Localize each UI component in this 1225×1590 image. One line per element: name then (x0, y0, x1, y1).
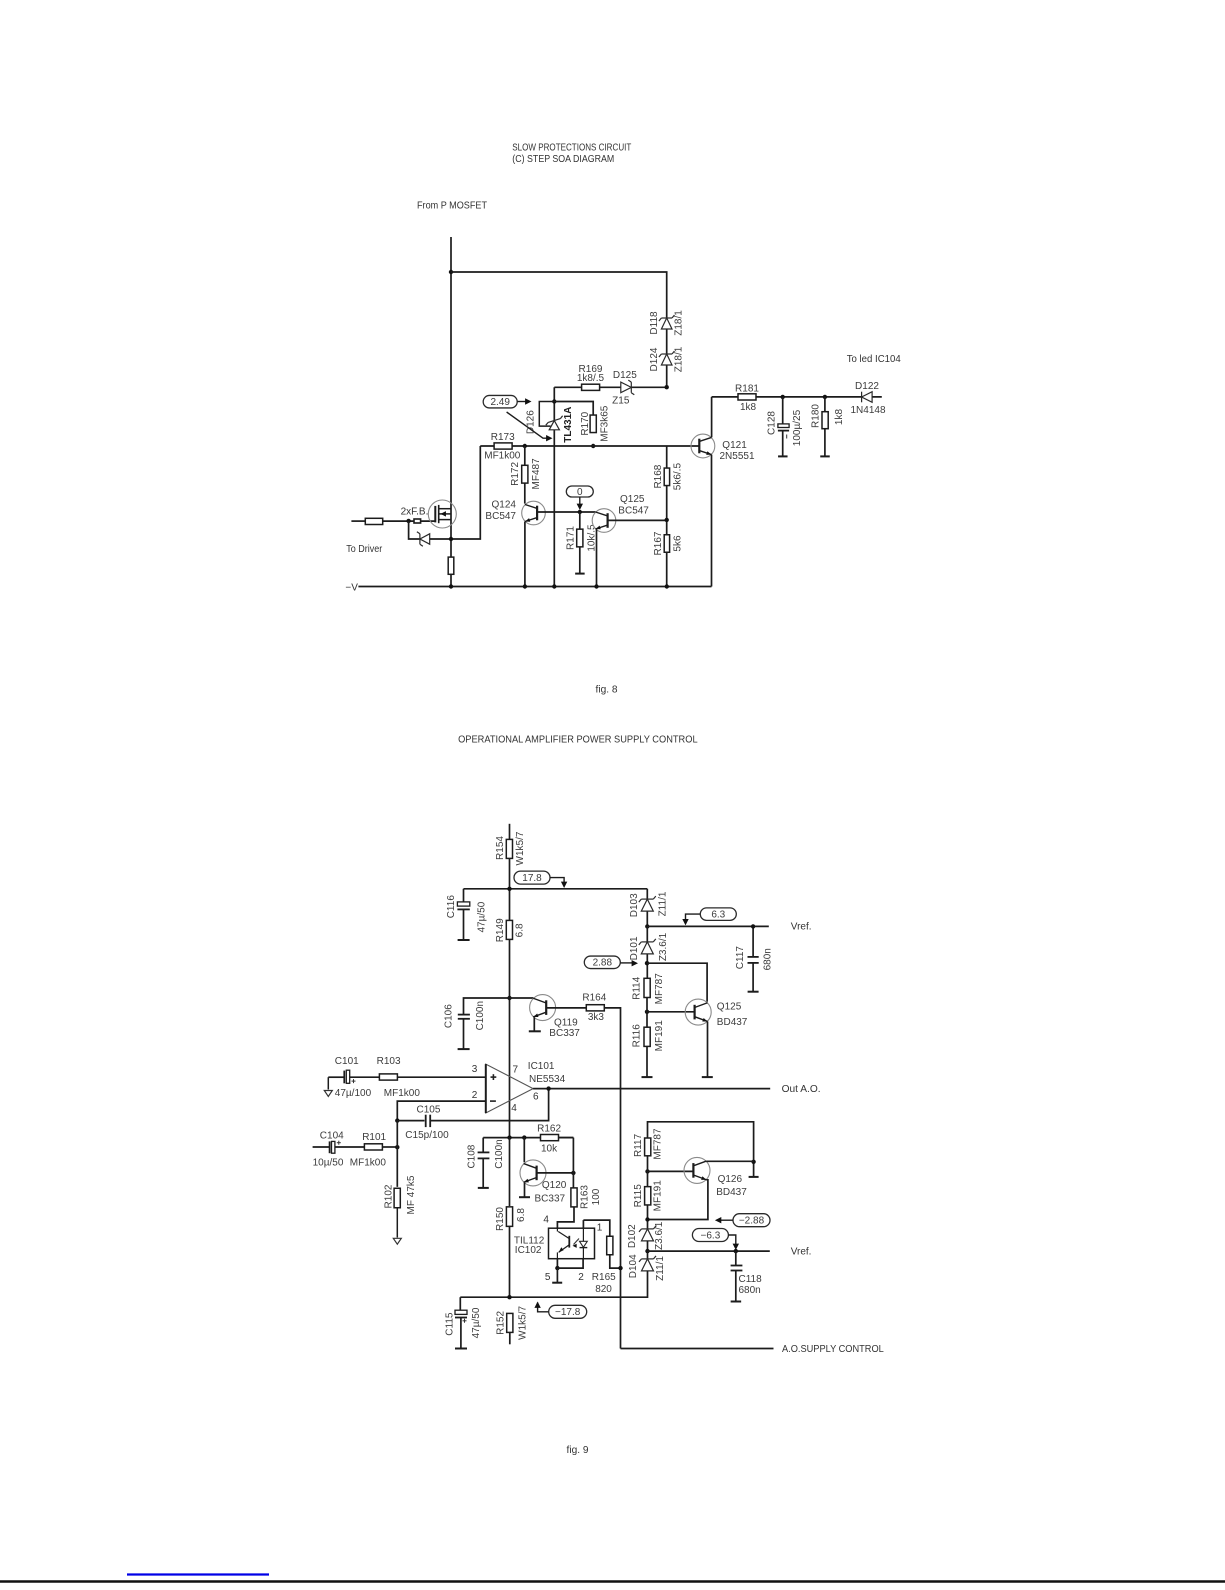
svg-text:−6.3: −6.3 (701, 1230, 721, 1241)
node -V TL431 (552, 584, 556, 588)
optocoupler IC102 box (549, 1228, 595, 1259)
svg-text:MF191: MF191 (652, 1180, 663, 1212)
resistor R115 (645, 1187, 651, 1205)
wire D126 loop (539, 402, 554, 427)
svg-text:6.8: 6.8 (516, 1208, 527, 1222)
wire Q120 emitter ground (524, 1183, 526, 1197)
footer blue underline (127, 1573, 269, 1575)
arrow 2.49 to node (518, 401, 528, 403)
node Q120 base R163 (571, 1171, 575, 1175)
svg-text:Z18/1: Z18/1 (674, 310, 685, 336)
node -V Q125e (594, 584, 598, 588)
svg-text:W1k5/7: W1k5/7 (517, 1306, 528, 1340)
svg-text:Q125: Q125 (620, 494, 645, 505)
wire Q121 collector up (711, 397, 713, 437)
capacitor C128 (782, 397, 784, 424)
svg-text:R172: R172 (510, 462, 521, 486)
svg-text:fig. 8: fig. 8 (596, 685, 618, 696)
svg-text:Z18/1: Z18/1 (674, 346, 685, 372)
svg-text:R149: R149 (495, 918, 506, 942)
wire C105 row (397, 1120, 424, 1122)
wire D104 to rail (460, 1271, 647, 1297)
svg-text:1: 1 (597, 1222, 603, 1233)
wire to gate node (383, 520, 435, 522)
svg-text:C108: C108 (466, 1144, 477, 1168)
measure oval -2.88 (733, 1214, 770, 1227)
wire R102 bottom arrow (396, 1208, 398, 1238)
wire from P MOSFET vertical (450, 237, 452, 587)
svg-text:680n: 680n (739, 1285, 761, 1296)
arrow 0 to base (579, 497, 581, 506)
svg-text:R165: R165 (592, 1272, 616, 1283)
capacitor C108 (482, 1138, 484, 1152)
arrow 6.3 to Vref (686, 914, 701, 920)
svg-text:R115: R115 (633, 1184, 644, 1208)
wire Q121 emitter down (711, 455, 713, 587)
wire output row (533, 1088, 770, 1090)
node source junction (449, 537, 453, 541)
wire D102 D104 link (647, 1241, 649, 1259)
svg-text:R168: R168 (653, 464, 664, 488)
wire R162 to base node (559, 1137, 574, 1139)
svg-text:1N4148: 1N4148 (850, 405, 885, 416)
wire R150 to rail (509, 1226, 511, 1297)
svg-text:D125: D125 (613, 370, 637, 381)
wire Vref top row (647, 925, 769, 927)
wire Q125 base to R168 node (608, 519, 667, 521)
svg-text:MF1k00: MF1k00 (484, 450, 521, 461)
svg-text:Z15: Z15 (612, 395, 630, 406)
wire R154 to node (509, 858, 511, 920)
svg-text:TL431A: TL431A (563, 407, 574, 443)
wire C101 to R103 (350, 1076, 379, 1078)
wire AO supply control (621, 1348, 774, 1350)
svg-text:6: 6 (533, 1091, 539, 1102)
svg-text:R163: R163 (579, 1185, 590, 1209)
svg-text:C115: C115 (444, 1312, 455, 1336)
svg-text:100: 100 (591, 1188, 602, 1205)
svg-text:4: 4 (543, 1215, 549, 1226)
opto light arrows (574, 1239, 580, 1245)
resistor R114 (644, 978, 650, 997)
resistor R165 (607, 1236, 613, 1255)
svg-text:1k8: 1k8 (834, 409, 845, 426)
svg-text:D102: D102 (627, 1224, 638, 1248)
zener D103 (646, 889, 648, 927)
svg-text:Q120: Q120 (542, 1180, 567, 1191)
svg-text:D103: D103 (629, 893, 640, 917)
svg-text:2.88: 2.88 (593, 958, 613, 969)
resistor R172 (522, 465, 528, 483)
resistor R102 (394, 1188, 400, 1208)
transistor Q120 (523, 1138, 525, 1163)
measure oval 2.88 (584, 956, 620, 969)
wire C105 to output (430, 1089, 548, 1121)
svg-text:C118: C118 (739, 1274, 763, 1285)
node R115 D102 emitter (645, 1217, 649, 1221)
capacitor C115 (459, 1297, 461, 1310)
node A top-left junction (449, 270, 453, 274)
wire R116 ground (646, 1046, 648, 1077)
svg-text:6.8: 6.8 (514, 923, 525, 937)
svg-text:R167: R167 (653, 531, 664, 555)
terminal R171 (575, 573, 585, 575)
wire R154 column top (509, 824, 511, 840)
node C118 top (734, 1249, 738, 1253)
transistor Q125 fig8 (592, 509, 616, 533)
resistor R154 (506, 839, 512, 858)
node R170 bottom (591, 444, 595, 448)
node D125-D124 junction (665, 385, 669, 389)
capacitor C105 (425, 1115, 427, 1127)
svg-text:R180: R180 (810, 404, 821, 428)
wire Q119 base to R164 (546, 1007, 586, 1009)
transistor Q121 (691, 434, 715, 458)
svg-text:C100n: C100n (494, 1139, 505, 1168)
transistor Q119 (510, 997, 534, 999)
wire Q126 emitter loop (648, 1180, 708, 1220)
measure oval 6.3 (700, 908, 736, 921)
opamp minus (490, 1100, 496, 1102)
wire R101 to node (383, 1146, 398, 1148)
svg-text:Vref.: Vref. (791, 1247, 812, 1258)
svg-text:Q121: Q121 (722, 440, 747, 451)
measure oval -6.3 (692, 1229, 728, 1242)
svg-text:Q126: Q126 (718, 1174, 743, 1185)
wire pin5 pin2 link (557, 1259, 583, 1268)
opamp plus (491, 1076, 497, 1078)
node R101 R102 (395, 1145, 399, 1149)
svg-text:1k8: 1k8 (740, 402, 757, 413)
capacitor C101 (328, 1076, 344, 1078)
node base Q124 junction (578, 510, 582, 514)
transistor Q125 BD437 (685, 999, 711, 1025)
mosfet Q 2xF.B. (428, 500, 456, 528)
svg-text:3: 3 (472, 1064, 478, 1075)
capacitor C128 polarity (786, 435, 788, 439)
svg-text:2.49: 2.49 (490, 397, 510, 408)
node output (546, 1086, 550, 1090)
svg-text:R152: R152 (495, 1311, 506, 1335)
svg-text:From P MOSFET: From P MOSFET (417, 201, 487, 212)
svg-text:2N5551: 2N5551 (720, 451, 755, 462)
wire R164 to control column (605, 1008, 621, 1349)
svg-text:Q124: Q124 (492, 500, 517, 511)
arrow -2.88 left (720, 1219, 734, 1221)
capacitor C106 (464, 998, 510, 1014)
zener D124 (659, 351, 675, 365)
svg-text:C101: C101 (335, 1056, 359, 1067)
svg-text:47µ/100: 47µ/100 (335, 1088, 372, 1099)
wire Q124 emitter to -V (524, 522, 526, 587)
svg-text:R116: R116 (632, 1024, 643, 1048)
svg-text:BC547: BC547 (485, 511, 516, 522)
svg-text:C116: C116 (446, 895, 457, 919)
svg-text:7: 7 (513, 1064, 519, 1075)
node C128 top (781, 395, 785, 399)
wire top rail fig9 (464, 888, 648, 890)
resistor R167 (664, 535, 669, 553)
measure oval 17.8 (514, 871, 550, 884)
resistor R149 (506, 920, 512, 939)
transistor Q126 (684, 1157, 710, 1183)
capacitor C116 (463, 889, 465, 902)
svg-text:0: 0 (577, 487, 583, 498)
svg-text:47µ/50: 47µ/50 (471, 1307, 482, 1338)
zener D101 (646, 926, 648, 978)
svg-text:D101: D101 (629, 936, 640, 960)
wire Vref bottom row (648, 1250, 770, 1252)
wire R115 to node (647, 1205, 649, 1229)
svg-text:To led IC104: To led IC104 (847, 354, 901, 365)
wire R165 to node (610, 1255, 621, 1268)
wire C104 to R101 (335, 1146, 364, 1148)
wire Q125 emitter to -V (596, 529, 598, 586)
svg-text:Z3.6/1: Z3.6/1 (658, 932, 669, 961)
svg-text:5: 5 (545, 1272, 551, 1283)
resistor below mosfet (448, 557, 454, 574)
svg-text:R162: R162 (537, 1123, 561, 1134)
svg-text:R114: R114 (632, 976, 643, 1000)
wire TL431 cathode column (553, 387, 555, 586)
wire R163 to opto pin4 (557, 1207, 574, 1228)
wire -V rail (358, 586, 711, 588)
wire Q126 base (648, 1170, 694, 1172)
svg-text:Vref.: Vref. (791, 922, 812, 933)
resistor R162 (541, 1135, 559, 1141)
svg-text:A.O.SUPPLY CONTROL: A.O.SUPPLY CONTROL (782, 1344, 884, 1355)
wire pin5 ground (556, 1268, 558, 1282)
wire R149 to op-amp column (509, 939, 511, 1137)
node Q126 collector (751, 1160, 755, 1164)
opto LED (580, 1241, 588, 1247)
measure oval 0 (566, 486, 593, 497)
wire Q119 emitter ground (533, 1017, 535, 1031)
node gate branch (406, 519, 410, 523)
svg-text:BD437: BD437 (716, 1187, 747, 1198)
wire top rail to D118 column (451, 272, 667, 387)
wire Q124 base row (537, 511, 595, 513)
svg-text:10µ/50: 10µ/50 (313, 1157, 344, 1168)
wire R114-R116 link (646, 998, 648, 1028)
zener D125 (621, 380, 635, 395)
node R180 top (823, 395, 827, 399)
zener D104 (639, 1256, 656, 1271)
capacitor C118 (735, 1251, 737, 1265)
arrow 17.8 to rail (550, 878, 564, 883)
resistor R101 (364, 1144, 382, 1150)
node pin5 (555, 1266, 559, 1270)
node -V Q124e (523, 584, 527, 588)
svg-text:2: 2 (578, 1272, 584, 1283)
wire pin2 loop (397, 1101, 486, 1121)
terminal Q126 collector (749, 1176, 759, 1178)
svg-text:C106: C106 (443, 1004, 454, 1028)
node R117 R115 base (645, 1169, 649, 1173)
label C115 plus (463, 1320, 467, 1322)
resistor R117 (645, 1138, 651, 1156)
wire R172 link (524, 446, 526, 465)
svg-text:NE5534: NE5534 (529, 1074, 566, 1085)
svg-text:MF191: MF191 (654, 1020, 665, 1052)
svg-text:Z11/1: Z11/1 (658, 891, 669, 916)
svg-text:3k3: 3k3 (588, 1012, 605, 1023)
wire R169 D125 row (554, 386, 666, 388)
node R172 top (523, 444, 527, 448)
zener D102 (639, 1226, 656, 1241)
node C105 R101 (395, 1118, 399, 1122)
mosfet arrow (441, 511, 446, 516)
wire mosfet source down (409, 521, 420, 539)
wire Q126 collector row (706, 1160, 753, 1162)
capacitor C117 (752, 926, 754, 956)
node -V R167 (665, 584, 669, 588)
svg-text:R170: R170 (580, 411, 591, 435)
label C101 plus (352, 1080, 356, 1082)
node Vref bottom (645, 1249, 649, 1253)
svg-text:IC101: IC101 (528, 1061, 555, 1072)
capacitor C104 (313, 1146, 330, 1148)
resistor R103 (379, 1074, 397, 1080)
zener D118 (659, 315, 675, 329)
wire R162 right down (572, 1138, 574, 1188)
svg-text:5k6/.5: 5k6/.5 (672, 463, 683, 491)
footer black rule (0, 1580, 1225, 1583)
wire R181 row (712, 396, 882, 398)
wire Q125 collector loop (647, 963, 707, 1002)
svg-text:To Driver: To Driver (346, 544, 383, 555)
svg-text:−2.88: −2.88 (739, 1216, 765, 1227)
node -V mosfet (449, 584, 453, 588)
svg-text:680n: 680n (762, 948, 773, 970)
wire R171 bottom (579, 547, 581, 574)
resistor R116 (644, 1027, 650, 1046)
node D101 R114 (645, 961, 649, 965)
svg-text:MF487: MF487 (531, 458, 542, 490)
arrow 2.88 to node (621, 962, 634, 964)
svg-text:BC337: BC337 (549, 1028, 580, 1039)
arrow -17.8 to rail (538, 1303, 549, 1312)
svg-text:SLOW PROTECTIONS CIRCUIT: SLOW PROTECTIONS CIRCUIT (512, 143, 631, 154)
svg-text:D104: D104 (628, 1254, 639, 1278)
wire C108 R162 row (483, 1137, 573, 1139)
svg-text:D126: D126 (526, 410, 537, 434)
resistor R173 (494, 443, 512, 449)
svg-text:Z3.6/1: Z3.6/1 (654, 1221, 665, 1250)
svg-text:D118: D118 (649, 311, 660, 335)
svg-text:R150: R150 (495, 1207, 506, 1231)
opto phototransistor (568, 1236, 570, 1248)
wire R150 link (509, 1138, 511, 1207)
node Q120 collector (522, 1135, 526, 1139)
svg-text:MF1k00: MF1k00 (384, 1088, 421, 1099)
pointer 2.49 to TL431 ref (507, 412, 548, 438)
shunt regulator TL431A symbol (546, 416, 563, 430)
wire driver input (351, 520, 365, 522)
svg-text:C117: C117 (735, 946, 746, 970)
zener protection diode (417, 532, 430, 546)
resistor R171 (577, 529, 583, 547)
wire base to Q125 (647, 1011, 694, 1013)
svg-text:Out A.O.: Out A.O. (782, 1084, 821, 1095)
svg-text:6.3: 6.3 (711, 910, 725, 921)
svg-text:R173: R173 (491, 432, 515, 443)
resistor R181 (738, 394, 756, 400)
wire R172 to Q124 collector (524, 483, 526, 504)
svg-text:BD437: BD437 (717, 1017, 748, 1028)
svg-text:C15p/100: C15p/100 (405, 1130, 449, 1141)
transistor Q124 (522, 501, 546, 525)
svg-text:2xF.B.: 2xF.B. (401, 507, 429, 518)
node C106 Q119 (507, 996, 511, 1000)
svg-text:C100n: C100n (475, 1001, 486, 1030)
svg-text:R103: R103 (377, 1056, 401, 1067)
svg-text:10k: 10k (541, 1144, 558, 1155)
svg-text:R102: R102 (383, 1184, 394, 1208)
opamp IC101 body (486, 1064, 533, 1113)
ferrite bead resistor (365, 518, 382, 524)
resistor R169 (582, 384, 600, 390)
svg-text:(C) STEP SOA DIAGRAM: (C) STEP SOA DIAGRAM (512, 154, 614, 165)
node Q125 base R168 R167 (665, 518, 669, 522)
svg-text:R154: R154 (495, 836, 506, 860)
resistor R164 (586, 1005, 604, 1011)
wire Q125 emitter ground (707, 1022, 709, 1077)
svg-text:4: 4 (511, 1103, 517, 1114)
svg-text:R164: R164 (582, 992, 606, 1003)
svg-text:Q125: Q125 (717, 1001, 742, 1012)
node R154 C116 R149 (507, 887, 511, 891)
svg-text:BC547: BC547 (618, 505, 649, 516)
wire opto pin1 (582, 1220, 584, 1228)
resistor R168 (664, 468, 669, 486)
measure oval 2.49 (483, 395, 517, 408)
wire Q120 base row (537, 1172, 574, 1174)
wire R117-R115 link (647, 1156, 649, 1187)
node rail R150 R152 (507, 1295, 511, 1299)
node D103 D101 Vref (645, 924, 649, 928)
wire R102 column (396, 1121, 398, 1187)
node R165 control (618, 1266, 622, 1270)
node R114 R116 base (645, 1010, 649, 1014)
svg-text:R101: R101 (362, 1132, 386, 1143)
label C104 plus (337, 1142, 341, 1144)
svg-text:100µ/25: 100µ/25 (792, 409, 803, 446)
node pin4 column (507, 1135, 511, 1139)
wire diode to node (430, 446, 481, 539)
measure oval -17.8 (549, 1305, 587, 1318)
svg-text:W1k5/7: W1k5/7 (515, 831, 526, 865)
svg-text:−17.8: −17.8 (555, 1307, 581, 1318)
wire R152 bottom (509, 1332, 511, 1344)
resistor R170 (590, 415, 596, 433)
wire opto pin5 (556, 1259, 558, 1268)
wire base rail R173 (480, 445, 699, 447)
svg-text:C104: C104 (320, 1130, 344, 1141)
svg-text:D124: D124 (649, 347, 660, 371)
svg-text:R181: R181 (735, 384, 759, 395)
svg-text:MF787: MF787 (654, 973, 665, 1005)
svg-text:−V: −V (345, 583, 358, 594)
svg-text:5k6: 5k6 (672, 535, 683, 552)
input arrow C101 (327, 1077, 329, 1089)
svg-text:MF1k00: MF1k00 (350, 1157, 387, 1168)
resistor R180 branch (824, 397, 826, 412)
wire R103 to pin3 (398, 1076, 486, 1078)
resistor R163 (571, 1188, 577, 1207)
resistor R150 (506, 1207, 512, 1227)
wire R170 top link (554, 402, 593, 416)
